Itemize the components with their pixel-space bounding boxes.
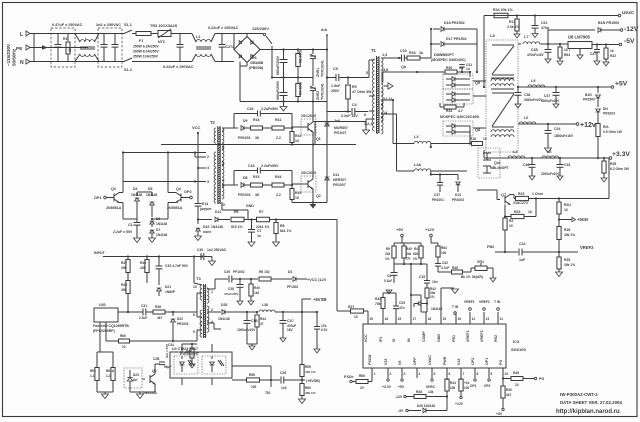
svg-text:D8: D8 xyxy=(243,176,248,180)
capacitor C46 xyxy=(531,158,533,164)
wire secondary tap xyxy=(383,71,445,73)
svg-text:PF1002: PF1002 xyxy=(287,285,298,289)
svg-text:10: 10 xyxy=(515,383,519,387)
svg-text:19: 19 xyxy=(443,317,447,321)
svg-text:R24: R24 xyxy=(514,210,520,214)
ground aux xyxy=(189,364,195,368)
resistor R30 pulldown xyxy=(502,379,504,387)
svg-text:PG: PG xyxy=(539,377,544,381)
svg-text:S1.1: S1.1 xyxy=(124,23,132,27)
svg-text:PE: PE xyxy=(16,46,23,52)
ground C40b xyxy=(209,261,216,266)
svg-text:C1C: C1C xyxy=(287,319,294,323)
ground C34 xyxy=(545,148,552,153)
net 5VSB pin5 xyxy=(431,379,433,381)
svg-text:MBL3040PT: MBL3040PT xyxy=(490,166,509,170)
svg-text:5: 5 xyxy=(222,163,224,167)
capacitor C28 xyxy=(280,377,282,384)
diode D12 row xyxy=(215,217,218,222)
svg-text:R43: R43 xyxy=(295,134,301,138)
pin V33 xyxy=(387,368,389,378)
svg-text:8: 8 xyxy=(222,147,224,151)
svg-text:4.7uF: 4.7uF xyxy=(441,266,449,270)
svg-text:INPUT: INPUT xyxy=(94,251,106,255)
svg-text:16: 16 xyxy=(385,317,389,321)
svg-text:6.3V: 6.3V xyxy=(321,328,328,332)
svg-text:PB2: PB2 xyxy=(494,335,498,342)
svg-text:D1: D1 xyxy=(252,56,257,60)
svg-text:L9: L9 xyxy=(531,79,535,83)
svg-text:1000uFx10V: 1000uFx10V xyxy=(237,328,256,332)
net +12V pin7 xyxy=(460,396,462,398)
svg-text:R47: R47 xyxy=(121,261,127,265)
svg-text:2n2 x 250VAC: 2n2 x 250VAC xyxy=(96,23,121,27)
svg-text:+12V: +12V xyxy=(455,402,464,406)
svg-text:2.2uF: 2.2uF xyxy=(139,316,147,320)
svg-text:1N4148: 1N4148 xyxy=(211,225,223,229)
pin PB2 xyxy=(497,312,499,324)
svg-text:5: 5 xyxy=(434,372,436,376)
svg-text:1N4148: 1N4148 xyxy=(218,317,230,321)
svg-text:IP1: IP1 xyxy=(379,337,383,342)
resistor R42 xyxy=(425,288,429,298)
svg-text:UVAC: UVAC xyxy=(428,355,432,365)
resistor R35 xyxy=(558,252,560,257)
svg-text:U30: U30 xyxy=(99,303,106,307)
ground D7 xyxy=(149,238,156,243)
capacitor C1 xyxy=(57,34,59,45)
magamp Q41 xyxy=(478,148,500,178)
ground C38 xyxy=(515,104,521,108)
ground GND pin xyxy=(452,289,459,294)
svg-text:C29: C29 xyxy=(399,301,405,305)
svg-text:+5VSB: +5VSB xyxy=(313,297,326,302)
svg-text:PB1: PB1 xyxy=(452,335,456,342)
ground R35 xyxy=(556,272,563,277)
svg-text:C9: C9 xyxy=(333,67,338,71)
svg-text:18: 18 xyxy=(428,317,432,321)
svg-text:GBU8B: GBU8B xyxy=(250,61,264,65)
svg-text:HER307: HER307 xyxy=(333,178,346,182)
ground C47 xyxy=(594,61,600,65)
svg-text:1N4148: 1N4148 xyxy=(131,193,142,197)
svg-text:R9: R9 xyxy=(386,247,390,251)
svg-text:R66: R66 xyxy=(359,374,365,378)
svg-text:D12: D12 xyxy=(215,210,221,214)
ground R22 xyxy=(603,62,609,66)
wire IN pin branch xyxy=(410,294,412,296)
svg-text:T IN: T IN xyxy=(494,300,501,304)
svg-text:2: 2 xyxy=(390,372,392,376)
resistor R36 xyxy=(153,310,165,314)
svg-text:470uFx16V: 470uFx16V xyxy=(527,53,545,57)
svg-text:1M: 1M xyxy=(68,47,72,52)
resistor R33 xyxy=(407,56,420,60)
resistor R7 xyxy=(257,217,270,222)
rectifier Q5 diodes xyxy=(443,74,473,89)
svg-text:PWR: PWR xyxy=(443,356,447,365)
capacitor C21 xyxy=(534,14,536,16)
pin VREF2 xyxy=(483,312,485,324)
svg-text:R36: R36 xyxy=(155,305,161,309)
pin V5 xyxy=(401,368,403,378)
svg-text:C32 4.7nF 50V: C32 4.7nF 50V xyxy=(165,264,189,268)
resistor R23 xyxy=(516,196,529,200)
svg-text:R2U: R2U xyxy=(564,203,571,207)
net arrow primary xyxy=(384,85,388,87)
svg-text:1.5nF: 1.5nF xyxy=(331,84,341,88)
capacitor C29 xyxy=(395,309,397,312)
svg-text:680uF/200V: 680uF/200V xyxy=(276,80,280,100)
resistor R40 xyxy=(403,243,405,246)
capacitor C37 xyxy=(555,87,557,92)
svg-text:OPP: OPP xyxy=(413,357,417,365)
svg-text:350W 10A/250V: 350W 10A/250V xyxy=(133,55,159,59)
svg-text:C18: C18 xyxy=(248,164,254,168)
wire DC mid rail xyxy=(272,77,313,79)
jumper E14 xyxy=(195,203,202,205)
svg-text:4: 4 xyxy=(207,166,209,170)
IC U30 FPS xyxy=(94,308,118,322)
svg-text:16V: 16V xyxy=(287,328,294,332)
svg-text:C23: C23 xyxy=(400,49,407,53)
svg-text:C31: C31 xyxy=(141,304,147,308)
svg-text:680uF/200V: 680uF/200V xyxy=(276,55,280,75)
svg-text:OP2: OP2 xyxy=(484,384,491,388)
svg-text:C47: C47 xyxy=(590,52,596,56)
wire T3 primary top xyxy=(193,257,195,284)
svg-text:R34: R34 xyxy=(446,109,452,113)
svg-text:10: 10 xyxy=(295,196,299,200)
diode D5 xyxy=(151,192,153,196)
pin IP1 xyxy=(382,312,384,324)
ground R17 xyxy=(514,34,520,38)
capacitor C34a xyxy=(181,344,183,352)
svg-text:100: 100 xyxy=(464,386,470,390)
svg-text:6: 6 xyxy=(449,372,451,376)
pin VREF1 xyxy=(469,312,471,324)
svg-text:R6 102: R6 102 xyxy=(259,270,270,274)
svg-text:VREF2: VREF2 xyxy=(480,330,484,342)
svg-text:PR1007: PR1007 xyxy=(333,183,346,187)
wire sb gnd row xyxy=(247,343,257,345)
resistor R34 sense xyxy=(494,13,508,18)
svg-text:9uF x 50V: 9uF x 50V xyxy=(165,344,169,358)
svg-text:TR3 10CX3A2S: TR3 10CX3A2S xyxy=(150,24,178,28)
svg-text:C8: C8 xyxy=(387,274,391,278)
ground C1B xyxy=(545,59,551,63)
ground R60 xyxy=(299,399,306,404)
resistor R47 xyxy=(127,257,129,261)
capacitor C9 half-bridge xyxy=(327,77,336,79)
svg-text:R2 100k: R2 100k xyxy=(299,50,303,63)
svg-text:4.7: 4.7 xyxy=(458,109,463,113)
svg-text:R16: R16 xyxy=(253,118,259,122)
wire D17 D18 right xyxy=(476,29,478,44)
svg-text:GND: GND xyxy=(437,334,441,342)
svg-text:C24: C24 xyxy=(519,242,525,246)
resistor R16 xyxy=(251,126,263,130)
resistor R40a xyxy=(250,279,252,284)
svg-text:L7: L7 xyxy=(524,35,528,39)
resistor R20 xyxy=(445,70,457,74)
svg-text:2.2uFx50V: 2.2uFx50V xyxy=(261,164,279,168)
svg-text:GND: GND xyxy=(246,204,254,208)
ground C1C xyxy=(280,338,286,342)
wire VCC row to IC xyxy=(280,219,337,221)
svg-text:8: 8 xyxy=(477,372,479,376)
svg-text:D8WB60PT: D8WB60PT xyxy=(434,53,455,57)
svg-text:47uFx50V: 47uFx50V xyxy=(224,292,239,296)
ground R64 xyxy=(557,61,563,65)
svg-text:13: 13 xyxy=(486,317,490,321)
svg-text:PF1002: PF1002 xyxy=(233,270,245,274)
svg-text:+VCC (12V: +VCC (12V xyxy=(307,278,327,282)
svg-text:70k: 70k xyxy=(375,302,381,306)
resistor R64 xyxy=(559,43,561,45)
capacitor C3 driver xyxy=(136,219,138,222)
wire L input xyxy=(30,33,124,35)
diode D28 xyxy=(222,310,225,315)
wire DC- rail xyxy=(239,66,241,102)
svg-text:R20: R20 xyxy=(446,66,452,70)
svg-text:C16: C16 xyxy=(247,107,253,111)
svg-text:Qb: Qb xyxy=(401,65,407,69)
transistor Q6 xyxy=(149,375,151,383)
svg-text:IN: IN xyxy=(407,338,411,342)
wire secondary 14 down xyxy=(381,113,397,115)
svg-text:1,2,3: 1,2,3 xyxy=(364,122,372,126)
svg-text:Q3: Q3 xyxy=(111,187,116,191)
svg-text:L38: L38 xyxy=(262,303,268,307)
svg-text:R30: R30 xyxy=(506,388,512,392)
svg-text:SG6105: SG6105 xyxy=(511,347,526,352)
resistor R17 xyxy=(516,14,518,16)
svg-text:2: 2 xyxy=(211,308,213,312)
svg-text:IW-P300A2-CWT-2: IW-P300A2-CWT-2 xyxy=(560,392,598,397)
svg-text:10: 10 xyxy=(505,372,509,376)
resistor R43 xyxy=(291,128,293,131)
svg-text:-12V: -12V xyxy=(395,395,403,399)
svg-text:+3.3V: +3.3V xyxy=(382,385,392,389)
resistor R45 xyxy=(291,185,293,188)
svg-text:7: 7 xyxy=(463,372,465,376)
resistor R22 xyxy=(605,43,607,45)
svg-text:13k: 13k xyxy=(428,390,434,394)
diode D19 -12V xyxy=(598,28,601,33)
svg-text:L0: L0 xyxy=(524,116,528,120)
svg-text:1: 1 xyxy=(374,372,376,376)
ground C3 xyxy=(134,238,141,243)
svg-text:PR1001: PR1001 xyxy=(238,136,251,140)
svg-text:1n: 1n xyxy=(257,234,261,238)
svg-text:C34: C34 xyxy=(554,127,560,131)
svg-text:PSCM: PSCM xyxy=(368,355,372,365)
svg-text:C33: C33 xyxy=(564,163,570,167)
svg-text:Q5: Q5 xyxy=(475,81,480,85)
resistor R64a xyxy=(437,243,439,246)
svg-text:R34 20k 1%: R34 20k 1% xyxy=(493,8,514,12)
svg-text:PG: PG xyxy=(499,360,503,365)
svg-text:-5V: -5V xyxy=(624,38,635,45)
capacitor C24 xyxy=(518,249,520,256)
svg-text:R64: R64 xyxy=(441,246,447,250)
svg-text:PR1003: PR1003 xyxy=(603,112,615,116)
svg-text:3: 3 xyxy=(404,372,406,376)
svg-text:21AC272: 21AC272 xyxy=(513,201,528,205)
wire Q2 emitter node xyxy=(312,189,314,203)
resistor R1 xyxy=(67,34,69,42)
svg-text:D26 1N4148: D26 1N4148 xyxy=(417,404,435,408)
resistor R41a xyxy=(420,243,422,246)
svg-text:0.47uF x 250VAC: 0.47uF x 250VAC xyxy=(52,23,83,27)
wire clamp vertical xyxy=(326,102,328,203)
svg-text:L: L xyxy=(20,32,23,38)
svg-text:2.2uF x 50V: 2.2uF x 50V xyxy=(113,230,133,234)
svg-text:F1: F1 xyxy=(139,39,143,43)
svg-text:R64: R64 xyxy=(564,53,570,57)
svg-text:R23: R23 xyxy=(518,192,524,196)
svg-text:11: 11 xyxy=(500,317,504,321)
pin VCC xyxy=(367,312,369,324)
capacitor C26a xyxy=(155,363,160,365)
wire Q2 collector xyxy=(312,145,314,180)
svg-text:R5: R5 xyxy=(352,85,357,89)
svg-text:15: 15 xyxy=(398,317,402,321)
svg-text:R61A: R61A xyxy=(106,369,115,373)
capacitor C4 xyxy=(326,102,328,112)
resistor R26 xyxy=(603,158,605,161)
svg-text:R48: R48 xyxy=(452,266,458,270)
svg-text:+12v: +12v xyxy=(580,122,596,129)
ground R61 xyxy=(97,391,113,393)
wire N input xyxy=(30,61,124,63)
svg-text:R35: R35 xyxy=(564,258,570,262)
diode D11 clamp xyxy=(325,177,330,180)
ground Q6 xyxy=(130,391,155,393)
svg-text:C4: C4 xyxy=(352,103,357,107)
capacitor C32 xyxy=(158,257,160,266)
wire -12V branch xyxy=(547,30,549,44)
capacitor C2 xyxy=(103,34,105,45)
svg-text:24k: 24k xyxy=(385,252,391,256)
svg-text:0.22uF x 250VAC: 0.22uF x 250VAC xyxy=(208,26,239,30)
svg-text:12: 12 xyxy=(472,317,476,321)
svg-text:Q41: Q41 xyxy=(494,161,501,165)
rectifier Q8 diodes xyxy=(443,121,473,136)
diode D21 xyxy=(158,283,160,285)
svg-text:TVR10241: TVR10241 xyxy=(321,60,325,77)
svg-text:V12: V12 xyxy=(457,359,461,365)
svg-text:45k 1%: 45k 1% xyxy=(305,370,316,374)
svg-text:R56: R56 xyxy=(249,373,255,377)
pin UVAC xyxy=(431,368,433,378)
svg-text:17: 17 xyxy=(413,317,417,321)
resistor R44b xyxy=(446,378,448,380)
svg-text:+5V: +5V xyxy=(398,385,405,389)
svg-text:E14: E14 xyxy=(202,202,208,206)
svg-text:115/230V: 115/230V xyxy=(252,26,269,31)
svg-text:1n0: 1n0 xyxy=(281,386,287,390)
svg-text:~115/230V: ~115/230V xyxy=(6,43,11,66)
svg-text:VREF2: VREF2 xyxy=(479,300,490,304)
pin GND xyxy=(440,312,442,324)
svg-text:10k: 10k xyxy=(441,251,447,255)
svg-text:910 1%: 910 1% xyxy=(231,225,243,229)
svg-text:L8: L8 xyxy=(490,33,495,38)
capacitor C5 xyxy=(283,50,285,60)
pin PSCM xyxy=(371,368,373,378)
node T61 xyxy=(270,380,272,387)
resistor R44c xyxy=(256,312,258,314)
svg-text:(+5VSB): (+5VSB) xyxy=(306,379,321,383)
capacitor C10 xyxy=(179,34,181,45)
svg-text:5: 5 xyxy=(193,330,195,334)
svg-text:1.2: 1.2 xyxy=(106,374,111,378)
pin OPP xyxy=(416,368,418,378)
svg-text:2N5551A: 2N5551A xyxy=(106,206,122,210)
ground primary xyxy=(280,107,287,112)
wire T1 midpoint to half-bridge xyxy=(315,121,366,123)
capacitor C34 xyxy=(547,124,549,130)
svg-text:R6: R6 xyxy=(234,210,239,214)
svg-text:D3: D3 xyxy=(288,270,292,274)
svg-text:1800uFx16V: 1800uFx16V xyxy=(554,134,574,138)
ground T1 shield xyxy=(365,122,367,131)
svg-text:D11: D11 xyxy=(333,173,339,177)
capacitor C42 xyxy=(437,260,439,263)
wire +5VSB out xyxy=(302,311,317,313)
svg-text:4: 4 xyxy=(419,372,421,376)
diodes D6 D7 stack xyxy=(151,214,153,217)
svg-text:V5: V5 xyxy=(398,361,402,365)
inductor L10 xyxy=(519,122,536,124)
resistor R2U xyxy=(558,199,560,203)
resistor R4 xyxy=(297,78,299,84)
capacitor C7 xyxy=(251,220,253,230)
svg-text:ZNR1: ZNR1 xyxy=(316,68,320,77)
transistor Q2 xyxy=(301,176,316,192)
svg-text:Bk 1%: Bk 1% xyxy=(461,275,471,279)
wire -5V row xyxy=(518,43,521,45)
svg-text:L3: L3 xyxy=(414,135,418,139)
svg-text:OP1: OP1 xyxy=(485,358,489,365)
svg-text:2.0k 1%: 2.0k 1% xyxy=(507,25,519,29)
svg-text:IC3: IC3 xyxy=(513,339,520,344)
svg-text:T61: T61 xyxy=(265,391,271,395)
svg-text:1k: 1k xyxy=(528,210,532,214)
IC U3 SG6105 xyxy=(363,324,506,368)
resistor R6 xyxy=(231,217,244,222)
svg-text:470p: 470p xyxy=(541,26,549,30)
svg-text:-12V: -12V xyxy=(624,26,639,33)
svg-text:1%: 1% xyxy=(406,257,411,261)
capacitor C6 xyxy=(283,78,285,93)
resistor R9 xyxy=(393,243,395,246)
svg-text:L6: L6 xyxy=(547,150,551,154)
diode D22 xyxy=(172,312,174,316)
capacitor C1B xyxy=(547,44,549,49)
wire Q3 collector xyxy=(119,192,123,194)
resistor R45b xyxy=(460,378,462,380)
ground R40a xyxy=(248,301,254,305)
resistor R8 xyxy=(275,220,277,223)
svg-text:R/A: R/A xyxy=(603,125,609,129)
svg-text:36: 36 xyxy=(255,193,259,197)
wire Q3 emitter xyxy=(119,202,123,204)
svg-text:jumper: jumper xyxy=(199,207,212,211)
svg-text:R46: R46 xyxy=(416,390,422,394)
